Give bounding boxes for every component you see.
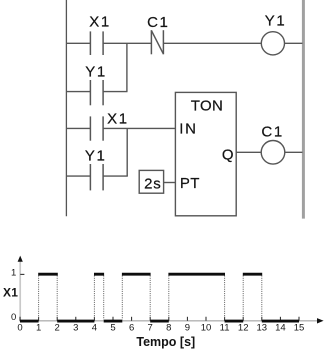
coil C1 (261, 141, 285, 165)
svg-text:0: 0 (17, 323, 22, 334)
transition dotted edge at 13s (261, 276, 263, 320)
chart x-axis arrowhead (317, 318, 324, 323)
wire rung2 rail to X1 (66, 127, 90, 129)
chart y-axis tick level 1 (20, 273, 24, 275)
wire 2s box to TON PT (164, 182, 176, 184)
svg-text:TON: TON (191, 98, 224, 115)
wire rung2 X1 to TON IN (103, 127, 175, 129)
svg-text:Y1: Y1 (85, 148, 107, 165)
coil Y1 (261, 32, 284, 55)
x-axis tick 13 (261, 317, 263, 321)
x-axis tick 10 (205, 317, 207, 321)
wire C1 contact to coil Y1 (163, 42, 261, 44)
contact Y1 (branch 1, NO) (90, 80, 103, 105)
svg-text:9: 9 (185, 323, 190, 334)
transition dotted edge at 12s (242, 276, 244, 320)
contact X1 (rung 2, NO) (90, 116, 103, 140)
svg-text:Y1: Y1 (85, 64, 107, 81)
svg-text:IN: IN (179, 120, 198, 137)
transition dotted edge at 8s (168, 276, 170, 320)
waveform X1 low 11-12s (225, 320, 244, 323)
preset value box 2s (139, 170, 163, 193)
contact C1 (rung 1, NC) (151, 30, 163, 54)
x-axis tick 5 (112, 317, 114, 321)
x-axis tick 11 (224, 317, 226, 321)
waveform X1 high 4-4.5s (94, 273, 104, 276)
x tick labels 0-15 (17, 323, 304, 334)
timer block U1 TON (175, 92, 236, 215)
svg-text:X1: X1 (3, 286, 18, 300)
wire coil C1 to right rail (285, 151, 303, 153)
waveform X1 high 8-11s (168, 273, 225, 276)
svg-text:X1: X1 (107, 111, 129, 128)
svg-text:3: 3 (73, 323, 78, 334)
svg-text:6: 6 (129, 323, 134, 334)
chart y-axis arrowhead (18, 256, 23, 262)
wire X1 to C1 contact (103, 42, 151, 44)
x-axis tick 14 (279, 317, 281, 321)
svg-text:1: 1 (36, 323, 41, 334)
svg-text:14: 14 (275, 323, 286, 334)
contact X1 (rung 1, NO) (90, 31, 103, 55)
svg-text:1: 1 (11, 268, 16, 279)
svg-text:C1: C1 (261, 123, 283, 140)
wire coil Y1 to right rail (285, 42, 303, 44)
svg-text:5: 5 (110, 323, 115, 334)
left power rail (65, 0, 67, 216)
svg-text:10: 10 (201, 323, 212, 334)
x-axis tick 12 (242, 317, 244, 321)
wire TON Q to coil C1 (236, 151, 261, 153)
transition dotted edge at 4.5s (103, 276, 105, 320)
wire branch2 Y1 to junction (103, 175, 128, 177)
x-axis tick 7 (149, 317, 151, 321)
transition dotted edge at 11s (224, 276, 226, 320)
wire branch1 rail to Y1 contact (66, 91, 90, 93)
x-axis tick 3 (75, 317, 77, 321)
right power rail (302, 0, 305, 219)
x-axis tick 15 (298, 317, 300, 321)
svg-text:2: 2 (55, 323, 60, 334)
svg-text:12: 12 (238, 323, 249, 334)
transition dotted edge at 2s (56, 276, 58, 320)
waveform X1 low 0-1s (20, 320, 39, 323)
waveform X1 high 5.5-7s (122, 273, 151, 276)
transition dotted edge at 5.5s (121, 276, 123, 320)
waveform X1 low 2-4s (57, 320, 94, 323)
x-axis tick 2 (56, 317, 58, 321)
wire rung1 rail to X1 (66, 42, 90, 44)
waveform X1 high 12-13s (243, 273, 262, 276)
chart x-axis (19, 320, 317, 322)
svg-text:8: 8 (166, 323, 171, 334)
svg-text:Y1: Y1 (265, 13, 287, 30)
contact Y1 (branch 2, NO) (90, 164, 103, 190)
svg-text:7: 7 (148, 323, 153, 334)
svg-text:2s: 2s (144, 176, 161, 193)
svg-text:Tempo [s]: Tempo [s] (136, 335, 195, 349)
x-axis tick 4 (93, 317, 95, 321)
transition dotted edge at 1s (38, 276, 40, 320)
x-axis tick 1 (38, 317, 40, 321)
x-axis tick 6 (131, 317, 133, 321)
x-axis tick 8 (168, 317, 170, 321)
x-axis tick 0 (19, 317, 21, 321)
junction rung2/branch2 (126, 128, 128, 176)
junction rung1/branch1 (126, 43, 128, 91)
transition dotted edge at 7s (149, 276, 151, 320)
waveform X1 high 1-2s (38, 273, 58, 276)
x-axis tick 9 (186, 317, 188, 321)
svg-text:PT: PT (180, 175, 200, 192)
svg-text:13: 13 (257, 323, 268, 334)
chart y-axis (19, 259, 21, 322)
svg-text:Q: Q (222, 146, 234, 163)
waveform X1 low 7-8s (150, 320, 169, 323)
svg-text:11: 11 (220, 323, 230, 334)
wire branch2 rail to Y1 contact (66, 175, 90, 177)
svg-text:15: 15 (294, 323, 305, 334)
svg-text:0: 0 (11, 312, 16, 323)
wire branch1 Y1 to junction (103, 91, 127, 93)
waveform X1 low 13-15s (262, 320, 299, 323)
svg-text:4: 4 (92, 323, 97, 334)
svg-text:C1: C1 (147, 14, 169, 31)
svg-text:X1: X1 (89, 14, 111, 31)
waveform X1 low 4.5-5.5s (104, 320, 123, 323)
transition dotted edge at 4s (93, 276, 95, 320)
